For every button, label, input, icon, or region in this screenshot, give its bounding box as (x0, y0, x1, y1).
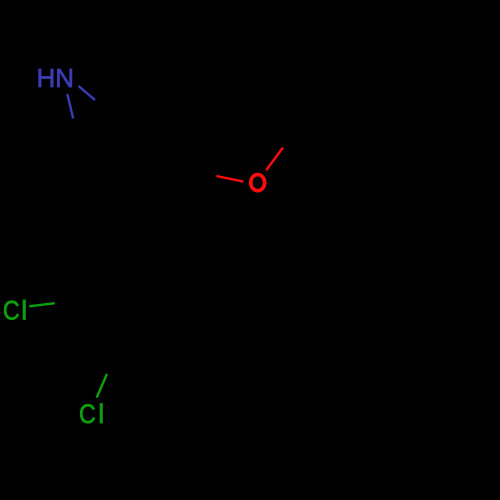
svg-text:C: C (79, 399, 96, 429)
svg-text:l: l (21, 295, 27, 325)
svg-text:l: l (98, 399, 104, 429)
svg-text:HN: HN (37, 63, 75, 93)
svg-text:C: C (3, 296, 20, 326)
